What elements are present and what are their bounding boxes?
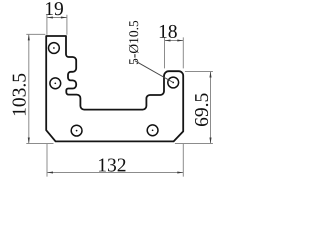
dim 19 arrows <box>47 16 67 18</box>
hole H3 <box>71 125 82 136</box>
hole label 5-O10.5 <box>129 21 139 64</box>
hole H2 <box>50 78 61 89</box>
dim text 69.5 <box>195 94 208 127</box>
dim 18 extension and line <box>165 37 184 68</box>
leader line for hole label <box>135 61 173 83</box>
hole H1 <box>49 43 60 54</box>
dim text 19 <box>46 2 63 15</box>
hole H4 <box>147 125 158 136</box>
dim text 103.5 <box>13 74 26 115</box>
hole H5 <box>168 77 179 88</box>
dim 69.5 arrows <box>209 72 211 144</box>
dim 18 arrows <box>165 39 184 41</box>
dim text 18 <box>160 25 177 38</box>
dim 103.5 arrows <box>28 34 30 143</box>
dim 19 extension and line <box>47 15 67 35</box>
dim text 132 <box>99 158 125 171</box>
dim 69.5 extension and line <box>175 72 213 144</box>
dim 132 extension and line <box>47 143 183 176</box>
part outline <box>46 36 183 141</box>
dim 132 arrows <box>47 171 183 173</box>
dim 103.5 extension and line <box>26 34 53 143</box>
